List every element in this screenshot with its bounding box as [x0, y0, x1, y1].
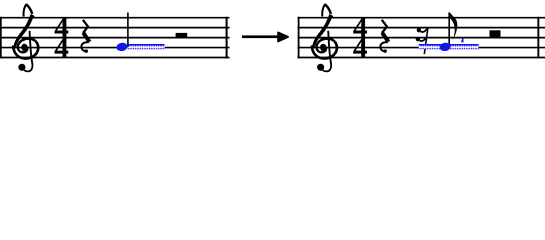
time signature: [353, 18, 367, 58]
right barline: [226, 17, 228, 59]
duration band: [128, 44, 165, 49]
staff lines: [298, 18, 545, 58]
left barline: [0, 17, 2, 59]
sixteenth rest: upper curl: [421, 28, 428, 32]
treble clef: [312, 3, 337, 71]
eighth note: flag: [449, 12, 457, 41]
sixteenth rest: lower curl: [420, 37, 427, 41]
half rest: [490, 30, 501, 37]
treble clef: [13, 3, 38, 71]
left barline: [298, 17, 300, 59]
quarter rest: [380, 20, 388, 53]
sixteenth rest: slanted stem: [424, 28, 428, 54]
sixteenth rest: [416, 28, 428, 54]
quarter note: stem: [127, 13, 129, 47]
quarter note: head (blue): [116, 42, 128, 52]
eighth note: head (blue): [439, 42, 451, 52]
sixteenth rest: lower curl dot: [416, 37, 420, 41]
sixteenth rest: upper curl dot: [417, 28, 421, 32]
time signature: [55, 18, 69, 58]
quarter rest: [81, 20, 89, 53]
arrow head: [278, 33, 288, 42]
half rest: [176, 33, 188, 38]
duration band: [419, 44, 479, 49]
eighth note: stem: [448, 12, 450, 47]
right barline: [537, 17, 539, 59]
augmentation dot (blue): [461, 38, 464, 42]
arrow shaft: [242, 35, 281, 38]
staff lines: [0, 18, 230, 58]
arrow (left score to right score): [242, 33, 288, 42]
